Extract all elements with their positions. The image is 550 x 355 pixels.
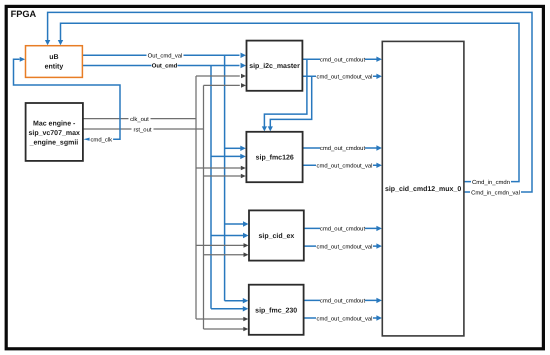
label Out_cmd — [152, 61, 178, 69]
wire sip_fmc_230 cmd_out_cmdout to mux — [304, 298, 382, 303]
wire cmd into sip_fmc126 — [211, 154, 246, 159]
svg-text:cmd_out_cmdout_val: cmd_out_cmdout_val — [317, 243, 373, 250]
svg-text:sip_i2c_master: sip_i2c_master — [249, 62, 300, 70]
label Out_cmd_val — [147, 51, 184, 59]
label Cmd_in_cmdn_val — [470, 188, 521, 196]
wire rst into sip_fmc_230 — [204, 327, 249, 332]
svg-text:uB: uB — [49, 54, 58, 61]
wire clk_out (Mac engine to clk bus) — [83, 118, 196, 120]
svg-text:Out_cmd: Out_cmd — [152, 63, 178, 70]
wire clk into sip_cid_ex — [196, 243, 249, 248]
label clk_out — [129, 115, 151, 123]
wire cmd into sip_cid_ex — [211, 233, 249, 238]
wire clk into sip_fmc_230 — [196, 317, 248, 322]
wire clk vertical bus — [195, 76, 197, 319]
svg-text:entity: entity — [45, 63, 64, 71]
svg-text:sip_cid_cmd12_mux_0: sip_cid_cmd12_mux_0 — [385, 185, 461, 193]
block uB entity — [26, 46, 83, 78]
wire sip_fmc126 cmd_out_cmdout to mux — [303, 145, 382, 150]
wire sip_fmc126 cmd_out_cmdout_val to mux — [303, 163, 382, 168]
svg-text:sip_vc707_max: sip_vc707_max — [29, 129, 80, 137]
block sip_cid_ex — [249, 210, 304, 260]
wire clk into sip_fmc126 — [196, 166, 246, 171]
block sip_i2c_master — [247, 41, 303, 91]
label cmd_out_cmdout_val (fmc_230) — [316, 314, 373, 322]
svg-text:Cmd_in_cmdn_val: Cmd_in_cmdn_val — [471, 189, 520, 196]
block Mac engine sip_vc707_max_engine_sgmii — [26, 103, 83, 161]
svg-text:cmd_out_cmdout_val: cmd_out_cmdout_val — [317, 315, 373, 322]
svg-text:cmd_out_cmdout: cmd_out_cmdout — [320, 145, 366, 152]
wire Out_cmd_val (uB entity to sip_i2c_master) — [82, 53, 246, 58]
wire rst into sip_cid_ex — [204, 252, 249, 257]
svg-text:sip_fmc126: sip_fmc126 — [256, 153, 294, 161]
wire clk into sip_i2c_master — [196, 74, 246, 79]
svg-text:cmd_out_cmdout_val: cmd_out_cmdout_val — [317, 74, 373, 81]
svg-text:sip_cid_ex: sip_cid_ex — [258, 232, 294, 240]
wire Out_cmd (uB entity to sip_i2c_master) — [82, 63, 246, 68]
block sip_cid_cmd12_mux_0 — [382, 41, 464, 336]
wire rst into sip_fmc126 — [204, 174, 246, 179]
wire Cmd_in_cmdn_val loop (mux to uB entity) — [45, 12, 532, 192]
svg-text:cmd_out_cmdout: cmd_out_cmdout — [320, 298, 366, 305]
svg-text:cmd_out_cmdout: cmd_out_cmdout — [320, 56, 366, 63]
wire sip_i2c_master cmd_out_cmdout_val to mux — [302, 74, 382, 79]
svg-text:_engine_sgmii: _engine_sgmii — [29, 138, 79, 146]
wire cmd into sip_fmc_230 — [211, 306, 248, 311]
wire Out_cmd vertical branch bus — [210, 66, 212, 309]
svg-text:FPGA: FPGA — [11, 9, 37, 19]
label Cmd_in_cmdn — [471, 178, 511, 186]
label cmd_out_cmdout (fmc126) — [320, 144, 366, 152]
wire cmd_clk (double arrow: uB entity and Mac engine) — [14, 57, 121, 141]
label cmd_out_cmdout_val (cid_ex) — [316, 242, 373, 250]
label cmd_out_cmdout (fmc_230) — [320, 296, 366, 304]
wire cmd_val into sip_cid_ex — [225, 221, 249, 226]
svg-text:cmd_clk: cmd_clk — [90, 137, 112, 144]
wire sip_cid_ex cmd_out_cmdout to mux — [304, 226, 382, 231]
wire sip_cid_ex cmd_out_cmdout_val to mux — [304, 243, 382, 248]
svg-text:sip_fmc_230: sip_fmc_230 — [255, 306, 297, 314]
wire sip_fmc_230 cmd_out_cmdout_val to mux — [304, 315, 382, 320]
label cmd_out_cmdout_val (fmc126) — [316, 161, 373, 169]
wire cmd_val into sip_fmc_230 — [225, 298, 249, 303]
wire cmd_val into sip_fmc126 — [225, 146, 246, 151]
svg-text:clk_out: clk_out — [130, 116, 149, 123]
label cmd_out_cmdout (cid_ex) — [320, 224, 366, 232]
label cmd_out_cmdout_val (i2c) — [316, 72, 373, 80]
svg-text:Mac engine -: Mac engine - — [33, 119, 76, 127]
wire rst vertical bus — [203, 85, 205, 329]
svg-text:cmd_out_cmdout: cmd_out_cmdout — [320, 226, 366, 233]
wire rst into sip_i2c_master — [204, 83, 247, 88]
svg-text:cmd_out_cmdout_val: cmd_out_cmdout_val — [317, 163, 373, 170]
block sip_fmc_230 — [249, 285, 304, 335]
label cmd_clk — [90, 135, 114, 143]
svg-text:Cmd_in_cmdn: Cmd_in_cmdn — [472, 179, 510, 186]
wire feedback cmdout to sip_fmc126 top — [262, 59, 307, 131]
svg-text:Out_cmd_val: Out_cmd_val — [148, 52, 183, 59]
wire rst_out (Mac engine to rst bus) — [83, 128, 204, 130]
wire Out_cmd_val vertical branch bus — [224, 55, 226, 300]
label cmd_out_cmdout (i2c) — [320, 55, 366, 63]
block sip_fmc126 — [246, 132, 302, 182]
svg-text:rst_out: rst_out — [133, 127, 151, 133]
wire sip_i2c_master cmd_out_cmdout to mux — [302, 57, 382, 62]
label rst_out — [132, 125, 154, 133]
wire feedback cmdout_val to sip_fmc126 top — [268, 76, 312, 131]
wire Cmd_in_cmdn loop (mux to uB entity) — [58, 23, 519, 181]
